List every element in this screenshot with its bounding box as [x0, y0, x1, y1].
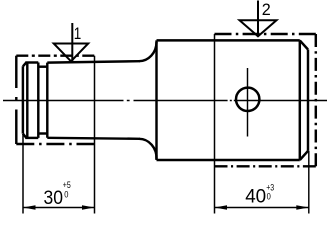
left zone chain box top edge: [16, 54, 94, 56]
dimension 40 line: [215, 207, 309, 209]
dimension 30 right arrowhead: [82, 205, 95, 209]
svg-text:40: 40: [245, 186, 266, 208]
collar top surface: [25, 61, 38, 63]
dimension 30 right extension line: [94, 56, 96, 214]
datum target 2 triangle: [240, 20, 277, 36]
cone bottom surface: [47, 138, 140, 139]
flange right face: [307, 50, 309, 151]
dimension 40 left arrowhead: [215, 205, 228, 209]
bottom fillet into flange: [139, 139, 157, 159]
dimension 30 line: [23, 207, 95, 209]
horizontal centerline: [3, 100, 124, 102]
svg-text:30: 30: [44, 187, 64, 209]
dimension 30 left extension line: [22, 134, 24, 214]
right zone chain box right edge: [315, 34, 317, 166]
chamfer edge line: [26, 63, 28, 138]
left zone chain box bottom edge: [16, 143, 94, 145]
hole circle: [236, 88, 259, 111]
cone top surface: [47, 61, 140, 62]
datum target 1 triangle: [54, 44, 88, 62]
groove right wall / shoulder: [46, 63, 48, 138]
collar bottom surface: [25, 137, 38, 139]
dimension 40 right arrowhead: [296, 205, 309, 209]
dimension 40 right extension line: [308, 151, 310, 214]
datum target 2 stem: [257, 1, 259, 37]
hole vertical centerline: [247, 68, 249, 137]
flange left face: [155, 40, 157, 160]
flange top edge: [157, 39, 300, 41]
svg-text:0: 0: [267, 192, 271, 203]
flange bottom edge: [157, 159, 300, 161]
shaft left end face: [22, 66, 24, 133]
end face top chamfer: [23, 63, 26, 67]
groove bottom surface: [38, 132, 47, 134]
dimension 30 left arrowhead: [23, 205, 36, 209]
end face bottom chamfer: [23, 134, 26, 138]
top right chamfer: [300, 40, 308, 49]
svg-text:1: 1: [74, 25, 82, 43]
dimension 40 left extension line (zone edge): [214, 34, 216, 214]
datum target 1 stem: [71, 23, 73, 61]
top fillet into flange: [139, 42, 157, 61]
groove left wall: [37, 63, 39, 138]
right zone chain box bottom edge: [215, 165, 316, 167]
left zone chain box left edge: [15, 56, 17, 88]
right chamfer edge line: [299, 40, 301, 160]
bottom right chamfer: [300, 151, 308, 160]
svg-text:2: 2: [262, 1, 271, 19]
svg-text:0: 0: [64, 190, 68, 201]
right zone chain box top edge: [215, 33, 316, 35]
groove top surface: [38, 65, 47, 67]
